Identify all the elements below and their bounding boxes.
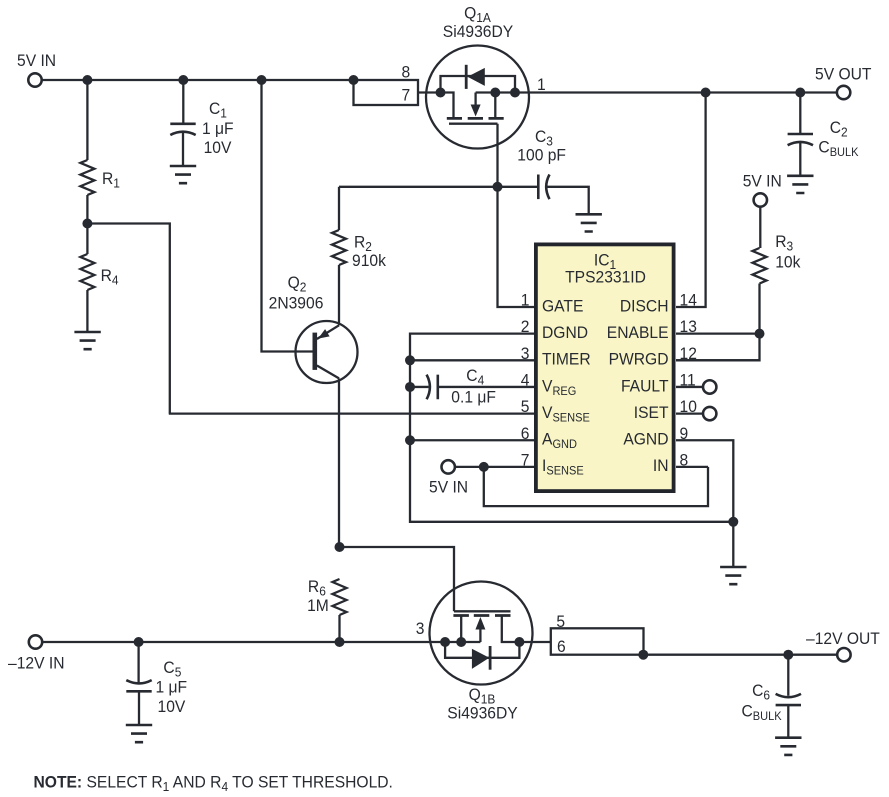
wire C2 to ground <box>799 143 801 176</box>
wire C4 to pin4 VREG <box>438 386 534 388</box>
pin number 2 <box>521 318 530 337</box>
value TPS2331ID <box>565 268 646 287</box>
pin number 7 <box>401 86 410 105</box>
wire rail to Q2 base <box>262 80 313 352</box>
wire divider to VSENSE <box>87 224 169 414</box>
resistor R2 <box>332 230 346 265</box>
wire pin10 ISET <box>676 412 704 414</box>
label R1 <box>102 169 120 190</box>
wire to Q1B gate <box>340 547 455 611</box>
svg-text:100 pF: 100 pF <box>517 146 566 165</box>
value Q1B Si4936DY <box>447 704 518 723</box>
wire R6 to bottom rail <box>338 615 340 642</box>
svg-text:TIMER: TIMER <box>542 350 591 369</box>
label C6 CBULK <box>742 702 782 723</box>
svg-text:C1: C1 <box>209 99 227 120</box>
pin number 13 <box>680 318 697 337</box>
svg-text:1 μF: 1 μF <box>202 119 234 138</box>
wire R1 to R4 <box>86 195 88 254</box>
svg-text:C2: C2 <box>830 118 848 139</box>
wire pin7 to Q1A <box>418 93 454 118</box>
pin name ISET (pin 10) <box>634 403 669 422</box>
svg-text:C6: C6 <box>752 681 770 702</box>
wire R2 top from gate net <box>338 187 340 230</box>
svg-text:1M: 1M <box>307 596 329 615</box>
net label 5V OUT <box>815 65 871 84</box>
value C3 100pF <box>517 146 566 165</box>
wire pin6 AGND <box>410 439 534 441</box>
value R3 10k <box>775 253 801 272</box>
transistor Q2 <box>296 321 358 383</box>
svg-text:10V: 10V <box>204 138 232 157</box>
pin number 5 <box>556 612 565 631</box>
terminal 5V OUT <box>837 86 850 99</box>
pin number 10 <box>680 398 697 417</box>
body diode Q1B <box>472 646 490 670</box>
pin number 4 <box>521 371 530 390</box>
node rail / R6 <box>335 637 345 647</box>
transistor Q1B body circle <box>430 582 533 685</box>
wire R4 to ground <box>86 290 88 332</box>
svg-text:C5: C5 <box>163 658 181 679</box>
label R3 <box>775 232 793 253</box>
svg-text:–12V IN: –12V IN <box>8 654 64 673</box>
svg-text:–12V OUT: –12V OUT <box>806 629 880 648</box>
svg-text:7: 7 <box>401 86 410 105</box>
wire Q1A drain drop <box>494 93 496 118</box>
pin number 3 of Q1B <box>416 619 425 638</box>
node bus / pin6 <box>405 435 415 445</box>
node pin9 / DGND bus <box>728 517 738 527</box>
capacitor C1 <box>170 124 195 135</box>
value Q2 2N3906 <box>269 294 324 313</box>
wire Q1B left bar drop <box>460 616 462 643</box>
node rail / pin14 <box>701 88 711 98</box>
svg-text:2N3906: 2N3906 <box>269 294 324 313</box>
pin name ISENSE (pin 7) <box>542 457 584 478</box>
body diode Q1A <box>466 65 485 89</box>
net label -12V OUT <box>806 629 880 648</box>
value R6 1M <box>307 596 329 615</box>
node bus / pin3 <box>405 355 415 365</box>
svg-text:Si4936DY: Si4936DY <box>447 704 518 723</box>
label R6 <box>308 577 326 598</box>
net label 5V IN (right) <box>743 172 782 191</box>
node R1/R4 divider <box>82 219 92 229</box>
svg-text:R3: R3 <box>775 232 793 253</box>
terminal pin11 FAULT <box>703 380 716 393</box>
wire pin9 AGND <box>676 440 733 567</box>
pin number 14 <box>680 291 697 310</box>
pin number 5 <box>521 398 530 417</box>
node rail / C2 <box>795 88 805 98</box>
svg-text:ENABLE: ENABLE <box>607 323 669 342</box>
terminal -12V IN <box>29 635 42 648</box>
node Q1A source dot <box>436 88 446 98</box>
label Q1B <box>469 685 496 706</box>
capacitor C5 <box>126 680 151 691</box>
pin name DISCH (pin 14) <box>620 297 669 316</box>
pin number 6 <box>557 637 566 656</box>
node top rail / Q2 base <box>257 75 267 85</box>
terminal 5V IN (top left) <box>28 73 41 86</box>
pin number 11 <box>680 371 696 390</box>
node Q1B right dot <box>514 637 524 647</box>
resistor R1 <box>80 160 94 195</box>
wire Q1B diode bottom path <box>445 642 519 658</box>
value Q1A Si4936DY <box>443 22 514 41</box>
value C5 1uF <box>156 678 188 697</box>
connector box pins 8/7 <box>354 80 419 105</box>
node Q1A middle dot <box>490 88 500 98</box>
pin name VREG (pin 4) <box>542 377 576 398</box>
Q1A channel bars <box>447 117 504 120</box>
svg-text:3: 3 <box>416 619 425 638</box>
svg-text:R1: R1 <box>102 169 120 190</box>
wire Q1A diode top path <box>441 76 516 93</box>
svg-text:8: 8 <box>401 63 410 82</box>
net label 5V IN (mid) <box>429 478 468 497</box>
label C2 <box>830 118 848 139</box>
wire pin3 TIMER <box>410 359 534 361</box>
pin number 1 of Q1A <box>537 75 546 94</box>
node R3 / pin13 <box>755 329 765 339</box>
value C5 10V <box>158 697 186 716</box>
wire Q1A gate down to pin1 <box>498 124 535 307</box>
capacitor C3 <box>538 175 549 200</box>
svg-text:10V: 10V <box>158 697 186 716</box>
ground below C1 <box>170 166 196 183</box>
pin number 6 <box>521 424 530 443</box>
svg-text:0.1 μF: 0.1 μF <box>451 388 496 407</box>
node Q1B left dot2 <box>456 637 466 647</box>
label C5 <box>163 658 181 679</box>
node gate / C3 <box>493 182 503 192</box>
node top rail / R1 <box>82 75 92 85</box>
pin number 3 <box>521 344 530 363</box>
pin name ENABLE (pin 13) <box>607 323 669 342</box>
svg-text:13: 13 <box>680 318 697 337</box>
label C2 CBULK <box>818 138 858 159</box>
wire bottom -12V rail <box>42 641 481 643</box>
svg-text:1: 1 <box>521 291 530 310</box>
value C4 0.1uF <box>451 388 496 407</box>
ground below pin9 <box>720 567 746 584</box>
svg-text:5V IN: 5V IN <box>429 478 468 497</box>
svg-text:ISET: ISET <box>634 403 669 422</box>
pin name AGND (pin 9) <box>623 430 668 449</box>
pin number 12 <box>680 344 697 363</box>
svg-text:NOTE: SELECT R1 AND R4 TO SET: NOTE: SELECT R1 AND R4 TO SET THRESHOLD. <box>34 773 393 794</box>
label C4 <box>466 366 484 387</box>
pin number 9 <box>680 424 689 443</box>
wire 5VIN to R3 <box>759 206 761 248</box>
pin name TIMER (pin 3) <box>542 350 591 369</box>
pin name PWRGD (pin 12) <box>609 350 669 369</box>
node 5VIN / pin7 / pin8 loop <box>479 462 489 472</box>
svg-text:5: 5 <box>556 612 565 631</box>
wire R2 to Q2 emitter <box>338 265 340 325</box>
ground below C5 <box>126 725 152 742</box>
resistor R3 <box>753 248 767 284</box>
wire rail to C5 <box>137 642 139 683</box>
op-amp IC1 TPS2331ID body <box>536 244 674 491</box>
ground below C6 <box>775 738 801 755</box>
wire -12V OUT rail <box>644 654 838 656</box>
node Q1A right dot <box>510 88 520 98</box>
svg-text:AGND: AGND <box>623 430 668 449</box>
ground below C3 <box>576 214 602 231</box>
pin number 1 <box>521 291 530 310</box>
Q1A body arrow <box>471 93 481 117</box>
connector box pins 5/6 <box>551 628 644 654</box>
wire pin11 FAULT <box>676 386 704 388</box>
svg-text:FAULT: FAULT <box>621 377 669 396</box>
wire gate net to C3 <box>498 186 538 188</box>
svg-text:TPS2331ID: TPS2331ID <box>565 268 646 287</box>
node top rail / pin8 box <box>349 75 359 85</box>
svg-text:14: 14 <box>680 291 697 310</box>
pin number 7 <box>521 451 530 470</box>
pin name GATE (pin 1) <box>542 297 584 316</box>
pin name VSENSE (pin 5) <box>542 403 590 424</box>
transistor Q1A body circle <box>426 46 529 149</box>
svg-text:Si4936DY: Si4936DY <box>443 22 514 41</box>
svg-text:C4: C4 <box>466 366 484 387</box>
svg-text:10k: 10k <box>775 253 801 272</box>
wire top 5V IN rail <box>41 79 354 81</box>
wire rail to C1 <box>182 80 184 124</box>
terminal -12V OUT <box>837 648 850 661</box>
label C1 <box>209 99 227 120</box>
ground below R4 <box>74 332 100 349</box>
label Q2 <box>288 273 307 294</box>
svg-text:DISCH: DISCH <box>620 297 669 316</box>
label R2 <box>354 233 372 254</box>
wire pin14 DISCH to rail <box>676 93 706 308</box>
svg-text:5V IN: 5V IN <box>743 172 782 191</box>
net label 5V IN (top left) <box>17 51 56 70</box>
svg-text:1 μF: 1 μF <box>156 678 188 697</box>
svg-text:5V OUT: 5V OUT <box>815 65 871 84</box>
wire Q1B drain to box <box>502 616 551 643</box>
svg-text:R4: R4 <box>101 266 119 287</box>
value C1 10V <box>204 138 232 157</box>
value R2 910k <box>352 251 387 270</box>
svg-text:6: 6 <box>557 637 566 656</box>
wire C5 to ground <box>138 691 140 725</box>
svg-text:CBULK: CBULK <box>818 138 858 159</box>
terminal 5V IN (right) <box>754 193 767 206</box>
note text <box>34 773 393 794</box>
wire pin8 IN <box>676 466 708 468</box>
wire bus to C4 <box>410 386 429 388</box>
label C3 <box>535 127 553 148</box>
node rail / C6 <box>783 650 793 660</box>
wire rail to C2 <box>799 93 801 135</box>
terminal pin10 ISET <box>703 407 716 420</box>
svg-text:910k: 910k <box>352 251 387 270</box>
label R4 <box>101 266 119 287</box>
capacitor C2 <box>788 134 813 145</box>
pin name FAULT (pin 11) <box>621 377 669 396</box>
node top rail / C1 <box>178 75 188 85</box>
wire pin7 ISENSE <box>454 466 534 468</box>
wire Q1A gate bar <box>449 123 498 125</box>
label C6 <box>752 681 770 702</box>
wire pin5 VSENSE <box>169 412 534 414</box>
svg-text:Q2: Q2 <box>288 273 307 294</box>
svg-text:PWRGD: PWRGD <box>609 350 669 369</box>
node box corner output <box>638 650 648 660</box>
node rail / C5 <box>134 637 144 647</box>
wire R3 to pin13/12 <box>676 284 760 361</box>
svg-text:GATE: GATE <box>542 297 584 316</box>
capacitor C6 <box>776 694 801 705</box>
svg-text:IN: IN <box>653 457 669 476</box>
wire pin2 DGND bus <box>410 334 733 522</box>
net label -12V IN <box>8 654 64 673</box>
pin name DGND (pin 2) <box>542 323 588 342</box>
resistor R6 <box>333 579 347 615</box>
value C1 1uF <box>202 119 234 138</box>
wire gate net horizontal <box>339 186 498 188</box>
capacitor C4 <box>427 375 438 400</box>
wire pin7 loop under IC <box>484 467 708 506</box>
wire rail to C6 <box>787 655 789 696</box>
wire C3 to ground <box>546 187 589 215</box>
label Q1A <box>464 4 491 25</box>
Q1B body arrow <box>475 617 485 642</box>
terminal 5V IN (mid) <box>442 460 455 473</box>
pin number 8 <box>680 451 689 470</box>
wire C1 to ground <box>182 133 184 166</box>
wire Q1A output rail <box>476 91 838 93</box>
svg-text:DGND: DGND <box>542 323 588 342</box>
wire pin13 ENABLE <box>676 332 760 334</box>
svg-text:5V IN: 5V IN <box>17 51 56 70</box>
Q1B gate bar <box>454 610 511 612</box>
wire Q2 collector down <box>338 378 340 547</box>
wire C6 to ground <box>787 705 789 738</box>
node bus / C4 <box>405 382 415 392</box>
pin name AGND (pin 6) <box>542 430 577 451</box>
resistor R4 <box>80 254 94 290</box>
pin number 8 <box>401 63 410 82</box>
ground below C2 <box>787 176 813 193</box>
pin name IN (pin 8) <box>653 457 669 476</box>
wire rail to R1 <box>86 80 88 160</box>
label IC1 <box>594 251 616 272</box>
node Q1B left dot1 <box>440 637 450 647</box>
Q1B channel bars <box>453 614 510 617</box>
wire pin12 PWRGD <box>676 359 760 361</box>
node Q2 collector / R6 / Q1B gate <box>335 542 345 552</box>
